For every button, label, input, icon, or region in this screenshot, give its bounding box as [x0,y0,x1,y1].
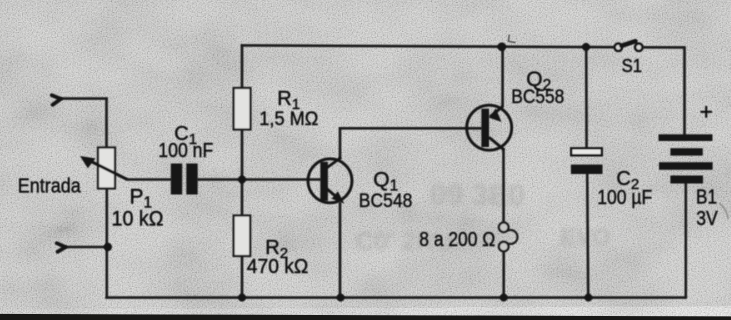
wire: wiper to C1 [127,178,172,181]
input arrow top [52,95,61,105]
svg-text:3V: 3V [696,208,718,230]
svg-text:BC558: BC558 [511,86,564,108]
junction dot rail R2 [238,294,246,302]
wire: jack bottom to rail [502,251,505,297]
wire: R2 top from node A [241,179,244,216]
transistor Q1 circle [308,159,352,203]
wire: node A to Q1 base [242,178,321,181]
jack 8-200 ohm top circle [499,223,509,233]
stray pencil arc near 3V [719,203,728,219]
wire: P1 bottom to bottom rail [106,188,109,298]
wire: top rail left segment (R1 corner to S1) [241,45,615,47]
battery B1 bar1 long [659,134,713,141]
bottom dark scan band [0,314,731,320]
wire: Q2 collector vertical to jack [502,149,505,223]
resistor R1 body [234,88,251,130]
battery bar2 short [670,148,702,155]
wire: C2 top vertical [585,46,588,149]
C2 bottom plate (solid) [571,165,603,174]
battery bar3 long [659,162,713,170]
wire: C1 to node A [197,178,243,181]
input arrow bottom [57,243,66,252]
junction dot rail Q1 emitter [337,294,345,302]
wire: top rail S1-to-battery corner segment [643,46,685,49]
wire: Q1 collector to Q2 base [339,127,482,130]
wire: Q1 collector vertical [339,127,342,159]
P1 wiper arrow [89,160,128,179]
svg-text:470 kΩ: 470 kΩ [247,256,309,278]
Q1 collector diagonal [327,158,342,169]
node A junction dot [238,176,246,184]
capacitor C2 top plate (hollow) [571,148,602,155]
wire: R2 bottom to rail [241,255,244,298]
wire: bottom rail [105,296,686,299]
jack arc [507,230,518,244]
junction dot rail C2 [584,294,592,302]
svg-text:10 kΩ: 10 kΩ [112,208,164,231]
svg-text:8 a 200 Ω: 8 a 200 Ω [419,229,495,251]
wire: bottom input horizontal [65,246,108,249]
stray tick mark above rail [508,35,515,43]
Q1 base bar [320,162,328,201]
Q2 emitter diagonal (top) [490,106,503,117]
capacitor C1 plates [171,164,182,195]
svg-text:Entrada: Entrada [18,176,82,198]
potentiometer P1 body [98,148,115,189]
junction dot bottom input [104,243,112,251]
svg-text:100 µF: 100 µF [597,187,652,209]
S1 lever [622,41,636,46]
junction dot top rail Q2 [497,42,506,51]
Q2 base bar [481,109,489,147]
svg-text:EVO: EVO [560,224,611,251]
wire: battery bottom vertical [684,181,687,299]
svg-text:09 3E0: 09 3E0 [430,179,525,212]
Q1 emitter arrowhead [332,191,345,203]
resistor R2 body [234,216,251,257]
wire: left column input to P1 top [105,97,108,148]
wire: C2 bottom vertical [587,173,588,298]
svg-text:1,5 MΩ: 1,5 MΩ [259,108,318,130]
Q2 emitter arrowhead [489,108,502,122]
S1 right contact [635,44,642,51]
switch S1 left contact [615,44,622,51]
junction dot top rail C2 [582,43,590,51]
svg-text:+: + [700,99,713,125]
wire: battery top vertical [683,46,686,136]
Q1 emitter diagonal [327,189,340,200]
wire: Q1 emitter vertical to rail [339,202,342,298]
svg-text:S1: S1 [622,56,643,76]
wire: R1 column top [241,44,244,88]
wire: Q2 emitter vertical to top rail [501,46,504,107]
svg-text:100 nF: 100 nF [158,140,213,162]
svg-text:B1: B1 [696,186,717,208]
faint bleed-through marks [355,179,611,256]
Q2 collector diagonal (bottom) [489,137,504,150]
jack bottom circle [499,242,509,252]
battery bar4 short [670,176,703,184]
transistor Q2 circle [467,105,512,150]
wire: R1 bottom to node A [241,129,244,181]
bottom white strip [0,306,731,316]
wire: top input horizontal [61,97,108,100]
svg-text:BC548: BC548 [359,190,413,212]
junction dot rail jack [500,294,508,302]
